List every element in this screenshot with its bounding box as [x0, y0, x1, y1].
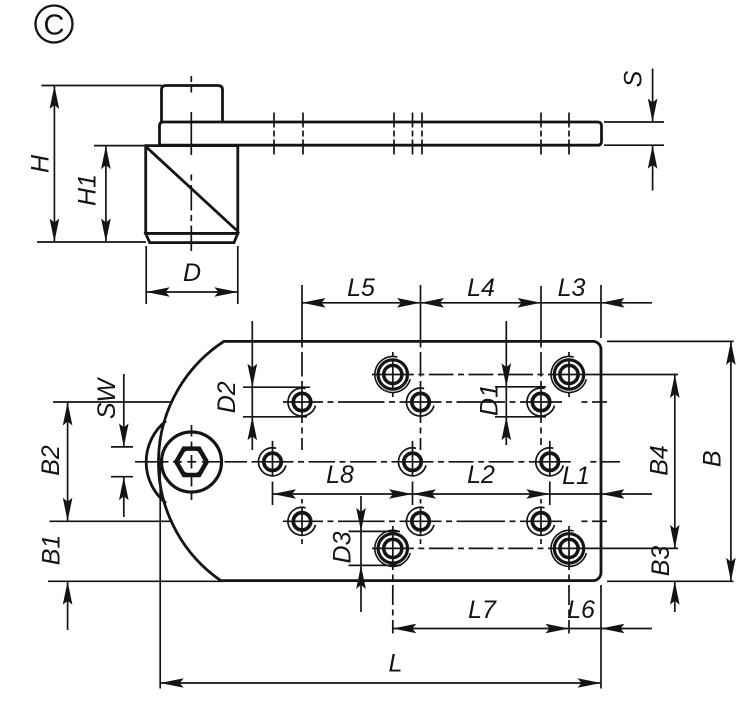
svg-text:D: D: [183, 259, 201, 287]
column center lines row1 (short): [393, 352, 569, 397]
dimension B2: [37, 402, 173, 521]
side view: long strip / bar: [160, 122, 602, 145]
hole row5 right (threaded, large): [551, 530, 586, 566]
socket inscribed circle: [178, 449, 205, 476]
bolt vertical center line: [191, 425, 193, 500]
svg-text:C: C: [44, 10, 65, 42]
dimension D: [146, 246, 238, 304]
hole row5 left (threaded, large): [375, 530, 410, 566]
svg-text:D1: D1: [476, 384, 504, 416]
side view: hole projection ticks on bar: [274, 113, 569, 155]
dimension B: [607, 341, 736, 581]
row 2 center line: [283, 401, 607, 403]
svg-text:L4: L4: [467, 274, 495, 302]
hole row3 left: [258, 448, 286, 476]
view marker C: [36, 6, 73, 43]
svg-text:L2: L2: [467, 461, 495, 489]
dimension B3: [647, 546, 680, 612]
svg-text:L8: L8: [326, 461, 354, 489]
column center lines row5 down to bottom dim chain: [393, 526, 569, 634]
svg-text:B: B: [699, 450, 727, 467]
dimension H1: [74, 146, 147, 242]
svg-text:L6: L6: [567, 596, 595, 624]
side view: vertical center line: [190, 76, 192, 251]
hole row2 left: [288, 388, 316, 416]
dimension B1: [38, 535, 225, 630]
hole row3 mid: [398, 448, 426, 476]
hole row2 mid: [406, 388, 434, 416]
column center line col 420.5 (to top dim chain): [420, 285, 422, 450]
dimension D1: [476, 321, 547, 445]
svg-text:L1: L1: [562, 462, 590, 490]
dimension SW: [93, 374, 133, 517]
row 5 center line: [372, 547, 678, 549]
svg-text:S: S: [620, 70, 648, 87]
hole row3 right: [536, 448, 564, 476]
svg-text:D2: D2: [213, 381, 241, 413]
side view: hinge leaf block (lower): [146, 146, 238, 234]
column center line col 302 (to top dim chain): [301, 285, 303, 450]
side view: bottom flange with chamfers: [146, 233, 238, 242]
column center lines row4 (short): [302, 499, 541, 544]
dimension D2: [213, 321, 310, 450]
main horizontal axis center line: [135, 461, 620, 463]
svg-text:D3: D3: [329, 531, 357, 563]
dimension L: [160, 462, 601, 689]
hole row2 right: [527, 388, 555, 416]
top dimension chain L5 L4 L3: [302, 274, 652, 338]
svg-text:B3: B3: [647, 546, 675, 577]
hole row4 left: [288, 507, 316, 535]
svg-text:H1: H1: [74, 174, 102, 206]
hole row4 right: [527, 507, 555, 535]
svg-text:L5: L5: [347, 274, 375, 302]
hole row1 left (threaded, large): [375, 356, 410, 392]
dimension B4: [646, 375, 680, 549]
row 1 center line: [372, 374, 678, 376]
dimension D3: [329, 496, 402, 612]
side view: weld-on block (upper): [162, 86, 223, 123]
svg-text:L3: L3: [558, 274, 586, 302]
hex socket: [176, 449, 206, 475]
svg-text:L: L: [389, 650, 403, 678]
svg-text:H: H: [27, 154, 55, 173]
column center lines middle row (to mid dim chain): [273, 441, 550, 505]
dimension H: [27, 86, 163, 243]
hole row1 right (threaded, large): [551, 356, 586, 392]
svg-text:B4: B4: [646, 445, 674, 476]
svg-text:L7: L7: [468, 596, 497, 624]
dimension S: [604, 69, 664, 191]
svg-text:B1: B1: [38, 535, 66, 566]
svg-text:SW: SW: [93, 376, 121, 419]
side view: weld diagonal: [147, 147, 238, 230]
plate outline: [158, 341, 601, 580]
bolt head circle: [162, 432, 222, 492]
svg-text:B2: B2: [37, 445, 65, 476]
hinge eye bulge arc: [146, 421, 166, 503]
column center line col 541 (to top dim chain): [540, 286, 542, 445]
hole row4 mid: [406, 507, 434, 535]
row 4 center line: [283, 520, 607, 522]
bottom dimension chain L7 L6: [393, 596, 652, 633]
mid dimension chain L8 L2 L1: [273, 461, 653, 499]
